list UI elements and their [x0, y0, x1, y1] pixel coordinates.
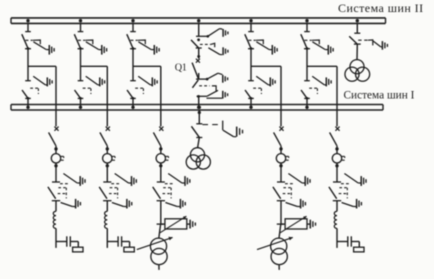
svg-text:Q1: Q1: [175, 63, 187, 74]
svg-text:Система шин I: Система шин I: [344, 89, 415, 101]
svg-text:Система шин II: Система шин II: [338, 1, 424, 15]
